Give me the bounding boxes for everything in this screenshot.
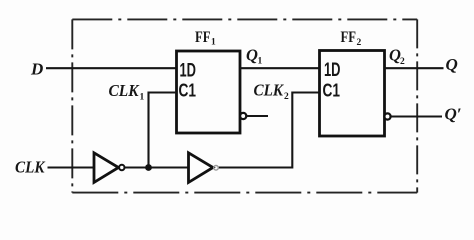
svg-text:1D: 1D (324, 60, 341, 81)
svg-text:CLK: CLK (254, 81, 284, 100)
wire: CLK2 from buffer G2 output up to FF2 C1 pin (218, 93, 320, 168)
label CLK1 (109, 81, 145, 102)
svg-text:D: D (30, 59, 43, 78)
wire: FF1 inverted output stub (247, 115, 268, 117)
package boundary (dash-dot frame) (72, 19, 417, 192)
svg-text:Q′: Q′ (445, 105, 462, 124)
wire: Q' output from FF2 bubble (391, 115, 442, 117)
wire: D input to FF1 1D pin (46, 67, 177, 69)
inverted output bubble of FF1 (240, 113, 246, 119)
latch FF1 box (177, 51, 241, 133)
svg-text:Q: Q (446, 55, 458, 74)
buffer G2 triangle (189, 153, 214, 183)
buffer G2 faint output bubble (214, 166, 219, 171)
svg-text:CLK: CLK (109, 81, 140, 100)
inverter G1 triangle (94, 153, 119, 183)
wire: CLK1 from junction up to FF1 C1 pin (149, 93, 177, 168)
wire: Q2 output from FF2 to Q (385, 67, 444, 69)
svg-text:1: 1 (140, 93, 145, 103)
svg-text:C1: C1 (323, 81, 341, 101)
svg-text:C1: C1 (179, 81, 197, 101)
inverter G1 bubble (119, 165, 124, 170)
svg-text:Q: Q (246, 46, 258, 65)
label FF1 (195, 29, 216, 48)
svg-text:2: 2 (357, 38, 362, 48)
svg-text:1: 1 (258, 57, 263, 67)
inverted output bubble of FF2 (384, 113, 390, 119)
wire: G1 output to G2 input (125, 166, 189, 168)
svg-text:2: 2 (284, 92, 289, 102)
node label Q2 (389, 46, 405, 68)
svg-text:FF: FF (341, 29, 357, 46)
svg-text:1: 1 (211, 38, 216, 48)
svg-text:2: 2 (400, 57, 405, 67)
node label Q1 (246, 46, 263, 67)
svg-text:1D: 1D (180, 61, 197, 82)
wire: CLK input to inverter G1 (48, 166, 95, 168)
label CLK2 (254, 81, 290, 102)
svg-text:CLK: CLK (15, 158, 46, 177)
label FF2 (341, 29, 362, 48)
wire: Q1 from FF1 to FF2 1D pin (240, 67, 320, 69)
junction node (CLK1 tap) (145, 164, 152, 171)
svg-text:FF: FF (195, 29, 211, 46)
latch FF2 box (320, 51, 385, 137)
